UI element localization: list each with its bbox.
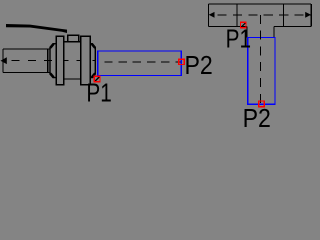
flow arrow at run right end bbox=[305, 12, 311, 18]
tee run pipe outline bbox=[209, 4, 312, 26]
connection port square P2 (pipe end) bbox=[179, 59, 184, 64]
valve right flange plate bbox=[81, 36, 91, 85]
weld chamfer blobs right bbox=[92, 45, 94, 77]
flow arrow at run left end bbox=[209, 12, 215, 18]
pipe P2 (blue branch pipe, gray-filled) bbox=[248, 38, 275, 105]
flow arrow at inlet pipe left end bbox=[1, 57, 7, 64]
valve handle lever bbox=[6, 24, 67, 33]
connection port square P2 (branch pipe end) bbox=[259, 101, 265, 107]
connection marker slash at P1 bbox=[95, 76, 100, 81]
connection port square P1 (valve outlet) bbox=[94, 76, 100, 82]
background canvas bbox=[0, 0, 315, 127]
valve stem box bbox=[68, 35, 79, 42]
connection marker slash at tee P1 bbox=[241, 23, 246, 28]
connection port square P1 (tee branch) bbox=[241, 22, 247, 28]
wire: inlet pipe outline bbox=[3, 49, 50, 72]
centerline of pipe P2 bbox=[104, 61, 180, 63]
tee branch stub sides bbox=[247, 26, 274, 37]
svg-text:P2: P2 bbox=[243, 103, 271, 127]
tee segment divider lines bbox=[237, 4, 284, 26]
run centerline (dash-dot) bbox=[218, 14, 312, 16]
svg-text:P1: P1 bbox=[86, 78, 111, 108]
valve body bbox=[56, 42, 90, 79]
svg-text:P2: P2 bbox=[185, 50, 213, 80]
pipe P2 (blue outlet pipe, gray-filled) bbox=[98, 51, 182, 76]
valve left flange plate bbox=[56, 36, 63, 85]
valve left weld stub (chamfered) bbox=[50, 44, 56, 78]
valve right weld stub (chamfered) bbox=[90, 44, 95, 78]
centerline (dash-dot) of valve run bbox=[12, 60, 96, 62]
branch centerline (dash-dot) bbox=[260, 15, 262, 103]
svg-text:P1: P1 bbox=[226, 24, 251, 54]
weld chamfer blobs left bbox=[51, 45, 53, 77]
